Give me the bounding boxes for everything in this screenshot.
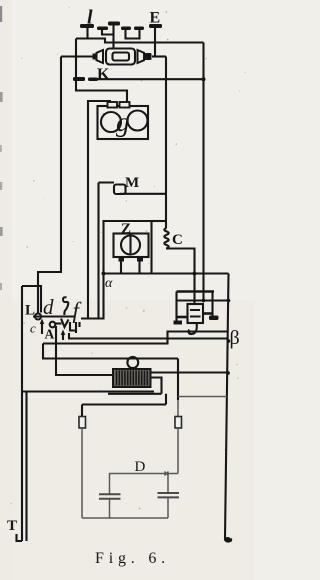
switch pad 2 xyxy=(97,27,108,31)
Z foot left xyxy=(119,257,125,262)
svg-text:Fig. 6.: Fig. 6. xyxy=(95,550,170,567)
label J xyxy=(188,323,196,335)
svg-text:α: α xyxy=(105,276,113,291)
wire pad4 to pad5 xyxy=(126,30,140,39)
condenser 1 plates xyxy=(99,494,121,498)
wire right vertical from top pads xyxy=(202,43,204,301)
wire long top horizontal to right vertical xyxy=(105,41,204,43)
wire alpha vertical down to contact bar xyxy=(102,274,104,319)
relay g box xyxy=(98,106,149,139)
wire Z left foot down xyxy=(120,262,122,274)
buzzer right foot xyxy=(209,316,219,321)
wire K pads to right junction xyxy=(94,78,204,80)
svg-text:M: M xyxy=(125,175,139,191)
arrow up 1 xyxy=(41,322,43,334)
galvanometer Z needle xyxy=(129,237,131,254)
transmitter K right cone xyxy=(138,50,145,63)
wire condenser bottom bus xyxy=(82,517,168,519)
scan artifact left edge marks xyxy=(0,92,3,102)
wire Z bottom bus xyxy=(104,272,229,274)
arrow up 2 xyxy=(62,333,64,340)
wire pad1 stem and zigzag to long line xyxy=(76,28,105,44)
spring squiggle xyxy=(63,297,68,315)
wire D loop left vertical upper xyxy=(81,405,83,417)
svg-text:D: D xyxy=(135,459,146,475)
galvanometer Z box xyxy=(114,234,149,258)
buzzer box internals xyxy=(190,310,201,317)
wire Z right foot down xyxy=(138,262,140,274)
wire second bottom-left vertical xyxy=(25,393,27,542)
wire to g bump1 and long vertical to contact bar xyxy=(88,101,111,319)
condenser 2 plates xyxy=(158,493,180,497)
svg-text:T: T xyxy=(7,518,17,534)
condenser 2 bottom lead xyxy=(167,498,169,518)
wire pad1 branch down-left to relay g xyxy=(76,39,127,103)
svg-text:C: C xyxy=(172,232,183,248)
switch pad E xyxy=(149,24,162,28)
wire frame left vertical xyxy=(21,286,23,392)
junction dot Z bottom left xyxy=(102,272,106,276)
contact claw xyxy=(61,319,69,328)
buzzer right leg xyxy=(211,292,213,316)
wire frame jog down to D loop xyxy=(82,394,166,405)
wire S-path bend xyxy=(43,344,178,359)
transmitter K body xyxy=(106,49,135,65)
wire M branch with corner going down xyxy=(99,183,115,319)
wire buzzer feed down xyxy=(193,274,195,304)
junction dot coil feed xyxy=(193,272,197,276)
wire frame corner to lever pivot xyxy=(22,286,41,313)
g terminal bump 2 xyxy=(120,102,130,108)
lever arm bar xyxy=(33,315,74,317)
resistance Q hatched box xyxy=(113,369,151,387)
wire capacitor feed gray section xyxy=(177,400,179,417)
condenser 2 top lead xyxy=(167,474,169,493)
paper specks xyxy=(84,90,85,91)
lever pivot circle xyxy=(35,314,41,320)
svg-text:β: β xyxy=(230,327,240,349)
buzzer top bar xyxy=(177,290,215,293)
contact M pad xyxy=(114,185,126,195)
wire S-path upper (to J bottom bus) xyxy=(43,332,229,344)
wire pad2 to pad3 pedestal xyxy=(102,25,114,49)
scan artifact left edge top xyxy=(0,6,2,22)
switch pad 4 xyxy=(121,27,131,31)
anvil bar xyxy=(81,317,105,319)
svg-text:E: E xyxy=(150,10,161,27)
g terminal bump 1 xyxy=(108,102,118,108)
junction dot right vertical y300 xyxy=(227,299,231,303)
wire Z enclosure top to coil vertical xyxy=(152,220,167,222)
junction dot K line / right vertical xyxy=(202,77,206,81)
transmitter K left cone xyxy=(93,54,97,60)
fuse 2 xyxy=(175,417,182,429)
fuse 1 xyxy=(79,417,86,429)
junction dot top-pads vertical end xyxy=(202,299,206,303)
junction tick condenser 2 xyxy=(165,472,169,476)
wire K-left long vertical down to lever xyxy=(38,57,61,314)
condenser 1 bottom lead xyxy=(109,500,111,519)
wire gray link to right vertical xyxy=(178,396,227,398)
galvanometer Z enclosure xyxy=(104,221,152,274)
wire condenser top bus xyxy=(110,474,179,494)
wire Q feed from pivot2 xyxy=(56,326,114,375)
junction dot Q output right xyxy=(226,371,230,375)
buzzer left leg xyxy=(175,292,177,323)
svg-text:A: A xyxy=(45,327,55,342)
contact bracket xyxy=(69,322,77,333)
wire K right to vertical xyxy=(152,55,166,57)
bar from pivot2 xyxy=(56,322,62,324)
coil C winding xyxy=(164,228,168,248)
wire left frame to T terminal xyxy=(21,392,23,542)
transmitter K right nub xyxy=(145,53,152,60)
wire buzzer bus y300 xyxy=(177,299,229,301)
wire vertical x166 from K down to coil C xyxy=(165,57,167,229)
wire M output to x166 vertical xyxy=(120,193,166,195)
svg-text:K: K xyxy=(97,66,110,83)
K pad left xyxy=(73,77,85,81)
right terminal foot xyxy=(225,538,231,542)
switch pad 5 xyxy=(134,27,144,31)
wire K left feed xyxy=(61,55,93,57)
g coil circle right xyxy=(128,111,148,131)
wire Q upper output to right vertical xyxy=(151,371,229,373)
switch pad 1 xyxy=(80,24,94,28)
wire heavy bottom frame xyxy=(22,390,154,392)
svg-text:c: c xyxy=(30,321,36,336)
wire right main vertical (to bottom terminal) xyxy=(225,274,229,539)
pivot circle 2 xyxy=(50,322,56,328)
buzzer right arm xyxy=(204,312,213,315)
buzzer left arm xyxy=(177,316,188,319)
wire capacitor feed lower xyxy=(177,428,179,474)
galvanometer Z dial circle xyxy=(121,236,140,255)
wire coil output right and down xyxy=(166,249,195,274)
g coil circle left xyxy=(101,112,121,132)
wire D loop left vertical lower xyxy=(81,428,83,518)
svg-text:d: d xyxy=(43,295,54,319)
switch pad 3 (raised) xyxy=(108,22,120,26)
Z foot right xyxy=(137,257,143,262)
wire pad E stem xyxy=(154,28,156,57)
wire capacitor feed vertical xyxy=(177,359,179,401)
transmitter K inner element xyxy=(113,53,130,61)
paper background xyxy=(0,0,255,580)
svg-text:g: g xyxy=(116,107,130,137)
junction dot H0 right xyxy=(226,339,230,343)
buzzer box J xyxy=(188,304,204,323)
wire H0 bracket to right vertical xyxy=(69,333,229,339)
buzzer left foot xyxy=(174,321,183,325)
wire Q wrap output xyxy=(108,378,162,394)
K pad right xyxy=(88,78,98,82)
label Q (oval) xyxy=(127,357,138,368)
T terminal hook xyxy=(17,534,23,541)
contact bracket tick xyxy=(78,322,80,327)
